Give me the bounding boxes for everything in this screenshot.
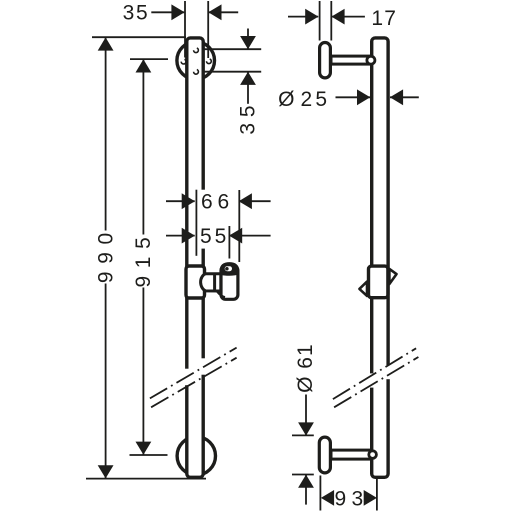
slider sleeve (front view) <box>186 266 205 298</box>
dim 915: arrows <box>136 59 152 72</box>
dim 35 vertical: extension lines from screws <box>197 48 261 50</box>
dim O25: right line + arrow <box>390 96 419 98</box>
dim 915: vertical line (split for label) <box>142 59 144 234</box>
svg-text:17: 17 <box>371 7 397 30</box>
dim 990: vertical line (split for label) <box>105 37 107 230</box>
dim O25: left line + arrow <box>336 96 371 98</box>
bottom wall plate (side view) <box>319 437 330 473</box>
svg-text:6: 6 <box>201 191 213 214</box>
svg-text:35: 35 <box>123 2 150 25</box>
wall-mount extension line x=208 (front view, right fixing screw) <box>207 1 209 58</box>
bottom bracket arm (side view) <box>331 450 371 459</box>
screw mark bottom <box>194 70 199 75</box>
dim 990: top reference line at bar top <box>92 36 186 38</box>
dim O61: vertical lines + outside arrows <box>305 395 307 436</box>
top bracket arm (side view) <box>331 56 370 64</box>
dim 35 top: left line + arrow <box>151 11 184 13</box>
bottom bracket ball joint <box>369 451 377 459</box>
dim 35 top: right line + arrow <box>209 11 239 13</box>
screw mark left <box>181 59 186 64</box>
slider sleeve (side view) <box>369 266 388 298</box>
svg-text:9 9 0: 9 9 0 <box>94 232 117 283</box>
top bracket ball joint <box>367 56 375 64</box>
holder cone lower edge <box>217 291 225 297</box>
break gap masks on bar edges (front) <box>184 369 189 386</box>
holder cone / release lever blob <box>201 274 221 291</box>
top wall plate (side view) <box>320 43 331 78</box>
shower bar (front view) <box>187 38 203 477</box>
dim 93: outward arrows <box>321 490 334 506</box>
slider flange right (side view) <box>389 269 396 284</box>
dim 17: left line + arrow <box>288 16 318 18</box>
svg-text:9: 9 <box>334 488 346 511</box>
ext line bar axis (66/55 left) <box>195 190 197 256</box>
holder cap dot <box>225 267 229 271</box>
svg-text:3 5: 3 5 <box>237 105 260 134</box>
halo box behind 66/55 labels <box>197 190 240 249</box>
svg-text:5: 5 <box>215 225 227 248</box>
dim 93: extension lines <box>319 476 321 511</box>
dim 17: right line + arrow <box>332 16 365 18</box>
rail (side view) <box>372 38 388 477</box>
svg-text:Ø 61: Ø 61 <box>294 343 317 393</box>
plate extension line x=331.3 (side view) <box>330 1 332 41</box>
ext line holder outer edge (66 right) <box>238 190 240 262</box>
svg-text:6: 6 <box>218 191 230 214</box>
break line B (side) <box>334 357 418 407</box>
svg-text:9 1 5: 9 1 5 <box>132 236 155 287</box>
holder top cap (black) <box>220 262 240 276</box>
dim 55: lines + arrows <box>166 235 195 237</box>
ext line holder axis (55 right) <box>228 226 230 259</box>
bottom wall bracket circle (front) <box>177 437 215 475</box>
svg-text:Ø: Ø <box>278 88 294 111</box>
dim 35 vertical: line + outside arrows <box>247 29 249 50</box>
dim 990: arrows <box>98 37 114 50</box>
svg-text:2: 2 <box>301 88 313 111</box>
dim 915: top extension line (bracket centre) <box>130 58 168 60</box>
break line A (front) <box>150 348 237 399</box>
dim 66: lines + arrows <box>166 200 195 202</box>
screw mark right <box>207 59 212 64</box>
dim 990: bottom baseline at bar end <box>86 478 206 480</box>
dim O61: extension lines at plate <box>292 434 314 436</box>
top wall bracket circle (front) <box>177 42 215 80</box>
holder cap slot <box>225 266 232 271</box>
break gap masks on rail edges (side) <box>369 373 374 387</box>
screw mark top <box>194 48 199 53</box>
wall-mount extension line x=185 (front view, left fixing screw) <box>184 1 186 58</box>
svg-text:5: 5 <box>200 225 212 248</box>
handle holder cylinder (front view) <box>221 266 238 299</box>
svg-text:5: 5 <box>315 88 327 111</box>
holder cone divider <box>213 274 216 291</box>
slider flange left (side view) <box>359 282 367 296</box>
break line B (front) <box>151 358 237 408</box>
dim 915: bottom extension line (bracket centre) <box>130 454 168 456</box>
svg-text:3: 3 <box>351 488 363 511</box>
plate extension line x=319.6 (side view) <box>319 1 321 41</box>
break line A (side) <box>333 348 416 399</box>
